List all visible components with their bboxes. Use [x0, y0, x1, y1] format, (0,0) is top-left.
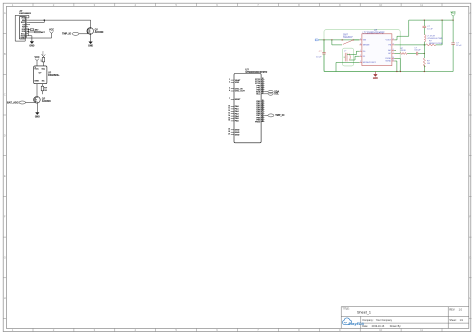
svg-text:DQ: DQ — [42, 68, 45, 70]
junction — [28, 31, 29, 32]
wire GND branch — [28, 36, 32, 42]
svg-text:TMP_IO: TMP_IO — [62, 33, 71, 36]
svg-text:VCC: VCC — [49, 30, 54, 32]
svg-text:VOUT: VOUT — [386, 40, 392, 42]
svg-text:10: 10 — [379, 3, 383, 7]
svg-text:2: 2 — [229, 81, 230, 83]
svg-text:1/1: 1/1 — [460, 319, 464, 322]
svg-text:13: 13 — [228, 113, 230, 115]
svg-text:TITLE:: TITLE: — [342, 309, 349, 311]
svg-text:A: A — [469, 11, 471, 15]
svg-text:49.9K: 49.9K — [401, 50, 407, 52]
svg-text:1K: 1K — [44, 90, 47, 92]
svg-text:LPS4018-473ML: LPS4018-473ML — [427, 38, 444, 40]
capacitor C4 — [451, 42, 462, 47]
power flag VCC1 — [49, 30, 54, 34]
junction — [28, 28, 29, 29]
wire pin3 — [28, 20, 44, 22]
mcu right pins — [255, 78, 264, 123]
svg-text:GND: GND — [235, 134, 240, 136]
svg-text:10: 10 — [25, 37, 27, 39]
svg-text:C: C — [4, 93, 6, 97]
svg-text:AO3400: AO3400 — [95, 31, 104, 34]
svg-text:DS18B20+: DS18B20+ — [48, 75, 60, 77]
resistor R2 SDA pullup — [28, 31, 35, 33]
svg-text:G: G — [469, 255, 471, 259]
wire right vertical upper — [452, 20, 454, 43]
svg-text:GND: GND — [29, 45, 34, 47]
group outline piezo — [342, 48, 353, 66]
capacitor C1 — [316, 51, 326, 59]
svg-text:4: 4 — [360, 44, 361, 46]
svg-text:LTC3588EMSE#PBF: LTC3588EMSE#PBF — [363, 32, 386, 34]
svg-text:U?: U? — [374, 29, 378, 32]
svg-text:GND: GND — [35, 116, 40, 118]
wire loop pin1 — [15, 15, 29, 41]
switch SW1 — [342, 35, 354, 45]
wire VIN rail — [319, 39, 359, 41]
svg-text:F: F — [4, 215, 6, 219]
wire switch to VIN pin — [354, 39, 359, 41]
svg-text:11: 11 — [420, 328, 423, 332]
svg-text:38: 38 — [262, 100, 264, 102]
svg-text:9: 9 — [26, 34, 27, 36]
wire R6 to branch — [436, 44, 443, 46]
svg-text:4K7: 4K7 — [35, 28, 40, 31]
svg-text:33: 33 — [262, 84, 264, 86]
wire U2 pin3 down — [36, 84, 38, 97]
wire gate — [79, 33, 88, 35]
svg-text:E: E — [4, 174, 6, 178]
wire VOUT up-over — [394, 20, 453, 40]
wire switch row2 — [332, 40, 342, 45]
svg-text:31: 31 — [262, 80, 264, 82]
svg-text:11: 11 — [228, 108, 230, 110]
junction — [323, 39, 324, 40]
svg-text:37: 37 — [262, 93, 264, 95]
svg-text:NC: NC — [42, 81, 45, 83]
svg-text:12: 12 — [228, 110, 230, 112]
svg-text:F: F — [469, 215, 471, 219]
svg-text:SCL: SCL — [256, 94, 261, 96]
svg-text:8: 8 — [393, 39, 394, 41]
svg-text:2019-10-16: 2019-10-16 — [372, 325, 385, 328]
svg-text:OSC_OUT: OSC_OUT — [235, 91, 246, 93]
junction — [396, 71, 397, 72]
resistor R8 — [423, 58, 430, 67]
wire source Q2 — [36, 103, 38, 112]
svg-text:A: A — [4, 11, 6, 15]
resistor R1 SCL pullup — [28, 29, 30, 31]
svg-text:BAT_ADC: BAT_ADC — [7, 101, 19, 104]
capacitor C2 — [423, 26, 434, 30]
svg-text:4K7: 4K7 — [41, 59, 43, 62]
svg-text:G: G — [4, 255, 6, 259]
wire right vertical lower — [452, 44, 454, 71]
ground GND4 — [373, 72, 378, 81]
wire gate Q2 — [26, 101, 35, 104]
svg-text:36: 36 — [262, 91, 264, 93]
resistor R4 pullup — [42, 56, 44, 57]
svg-text:2: 2 — [360, 55, 361, 57]
svg-text:C: C — [469, 93, 471, 97]
resistor R7 — [400, 48, 407, 55]
wire bottom rail — [324, 71, 453, 73]
power flag VCC3 — [35, 57, 40, 61]
svg-text:7: 7 — [393, 52, 394, 54]
svg-text:PA6: PA6 — [235, 120, 240, 123]
svg-text:E: E — [469, 174, 471, 178]
svg-text:SENSE: SENSE — [363, 45, 370, 47]
wire SW pin stub — [394, 49, 396, 51]
svg-text:SGND: SGND — [385, 61, 391, 63]
svg-text:PB10: PB10 — [255, 121, 261, 123]
svg-text:3: 3 — [360, 61, 361, 63]
capacitor C3 — [414, 47, 421, 55]
svg-text:6: 6 — [26, 28, 27, 30]
svg-text:VCC: VCC — [42, 50, 44, 55]
wire VCC branch — [28, 33, 51, 38]
svg-text:2: 2 — [26, 19, 27, 21]
svg-text:30: 30 — [262, 78, 264, 80]
svg-text:Drawn By:: Drawn By: — [390, 325, 402, 328]
svg-text:11: 11 — [392, 60, 394, 62]
wire left rail upper — [323, 40, 325, 53]
svg-text:EasyEDA: EasyEDA — [348, 322, 364, 326]
svg-text:PGND: PGND — [385, 58, 391, 60]
svg-text:11: 11 — [420, 3, 423, 7]
wire R7 to C3 — [407, 53, 416, 55]
junction — [424, 71, 425, 72]
power flag VCC4 — [451, 13, 456, 21]
wire node down — [423, 45, 425, 58]
wire FB — [394, 44, 426, 46]
svg-text:5: 5 — [360, 39, 361, 41]
svg-text:SS12D07: SS12D07 — [343, 37, 353, 39]
mcu U3 STM32 — [234, 68, 267, 143]
wire C3 to node — [418, 53, 425, 55]
wire piezo D0 — [347, 51, 359, 54]
svg-text:MODE/SYNC2: MODE/SYNC2 — [363, 62, 377, 64]
port SCL — [264, 92, 279, 95]
svg-text:3: 3 — [229, 87, 230, 89]
svg-text:Your Company: Your Company — [376, 319, 393, 322]
wire D0 row — [394, 53, 400, 55]
wire left rail lower — [323, 54, 325, 72]
resistor R6 — [426, 41, 443, 46]
svg-text:STM32F030C8T6TR: STM32F030C8T6TR — [245, 72, 267, 74]
wire L1 to FB node — [423, 42, 425, 45]
transistor Q2 — [34, 97, 52, 104]
junction — [424, 53, 425, 54]
svg-text:H: H — [469, 296, 471, 300]
svg-text:10 uF: 10 uF — [316, 56, 322, 58]
svg-text:10: 10 — [228, 105, 230, 107]
wire R8 down — [423, 65, 425, 71]
svg-text:100 pF: 100 pF — [414, 49, 421, 51]
svg-text:U?: U? — [245, 68, 249, 72]
svg-text:1: 1 — [26, 17, 27, 19]
svg-text:B: B — [469, 52, 471, 56]
svg-text:7: 7 — [26, 30, 27, 32]
regulator U4 LTC3588 — [362, 29, 392, 66]
wire to C2 — [423, 20, 425, 26]
svg-text:VIN: VIN — [363, 40, 367, 42]
wire pin2 long to Q1 drain — [28, 20, 90, 28]
junction — [44, 19, 46, 21]
svg-text:4K7: 4K7 — [41, 31, 46, 34]
ground GND3 — [35, 113, 40, 119]
connector J1 ESP8266 — [19, 9, 31, 40]
wire SGND down — [394, 61, 397, 72]
svg-text:L?: L? — [344, 51, 347, 53]
svg-text:VCC: VCC — [34, 68, 39, 70]
svg-text:10: 10 — [392, 57, 394, 59]
svg-text:GND: GND — [88, 46, 93, 48]
transistor Q1 — [87, 28, 104, 35]
wire source to gnd — [90, 34, 92, 41]
wire CAP pin down — [336, 63, 359, 72]
svg-text:9: 9 — [393, 44, 394, 46]
wire bus vertical — [27, 29, 29, 36]
group outline power supply — [324, 30, 400, 72]
port SDA — [264, 90, 279, 93]
junction — [424, 19, 425, 20]
svg-text:AO3400: AO3400 — [42, 100, 51, 103]
svg-text:1.0: 1.0 — [459, 308, 463, 311]
svg-text:NRST: NRST — [235, 99, 241, 101]
power flag VCC2 rotated — [42, 50, 46, 56]
junction — [424, 44, 425, 45]
easyeda logo — [343, 318, 365, 326]
svg-text:U?: U? — [39, 73, 43, 75]
svg-text:32: 32 — [262, 82, 264, 84]
wire pin4 — [28, 24, 30, 26]
svg-text:8: 8 — [26, 32, 27, 34]
svg-text:7: 7 — [229, 98, 230, 100]
svg-text:16: 16 — [228, 120, 230, 122]
svg-text:TMP_IO: TMP_IO — [275, 114, 284, 117]
svg-text:GND: GND — [373, 78, 378, 80]
svg-text:3: 3 — [26, 21, 27, 23]
wire vcc to U2 — [36, 61, 38, 66]
U4 pins — [359, 39, 394, 65]
svg-text:39: 39 — [262, 102, 264, 104]
svg-text:VDD: VDD — [235, 82, 240, 84]
svg-text:35: 35 — [262, 89, 264, 91]
svg-text:C?: C? — [319, 51, 323, 53]
svg-text:10 uF: 10 uF — [427, 28, 433, 30]
svg-text:5: 5 — [26, 26, 27, 28]
svg-text:GND: GND — [34, 81, 39, 83]
svg-text:D: D — [469, 133, 471, 137]
svg-text:AO: AO — [388, 49, 391, 52]
svg-text:NR3015T470M: NR3015T470M — [429, 43, 443, 45]
svg-text:10: 10 — [379, 328, 383, 332]
svg-text:Sheet_1: Sheet_1 — [357, 310, 371, 314]
svg-text:B: B — [4, 52, 6, 56]
svg-text:H: H — [4, 296, 6, 300]
svg-text:1: 1 — [229, 79, 230, 81]
ground GND2 — [88, 42, 93, 48]
svg-text:22 uF: 22 uF — [456, 45, 462, 47]
piezo transducer P1 — [344, 51, 350, 62]
svg-text:35: 35 — [228, 131, 230, 133]
junction — [331, 39, 332, 40]
svg-text:1M: 1M — [427, 63, 430, 65]
ground GND1 — [29, 42, 34, 48]
port BAT_ADC — [7, 101, 26, 104]
junction — [441, 19, 442, 20]
svg-text:15: 15 — [228, 117, 230, 119]
mcu left pins — [228, 79, 245, 137]
port TMP_IO mcu — [264, 114, 284, 117]
svg-text:6: 6 — [393, 49, 394, 51]
junction — [400, 71, 401, 72]
title block — [341, 307, 469, 329]
svg-text:23: 23 — [228, 129, 230, 131]
resistor R5 — [41, 84, 43, 87]
svg-text:D: D — [4, 133, 6, 137]
svg-text:1: 1 — [360, 50, 361, 52]
junction — [452, 19, 453, 20]
svg-text:SCL: SCL — [274, 94, 279, 96]
wire piezo left — [344, 56, 346, 58]
inductor L1 — [424, 35, 443, 42]
port TMP_IO — [62, 32, 79, 35]
input port flag — [315, 39, 319, 41]
sensor U2 DS18B20 — [34, 66, 60, 84]
wire C2 to L1 — [423, 28, 425, 35]
wire piezo D1 — [350, 56, 360, 60]
svg-text:ESP8266EX: ESP8266EX — [19, 13, 31, 15]
svg-text:Sheet:: Sheet: — [449, 319, 456, 322]
wire PGOOD down — [394, 58, 400, 71]
svg-text:REV:: REV: — [449, 308, 455, 311]
wire branch x442 — [441, 20, 443, 45]
